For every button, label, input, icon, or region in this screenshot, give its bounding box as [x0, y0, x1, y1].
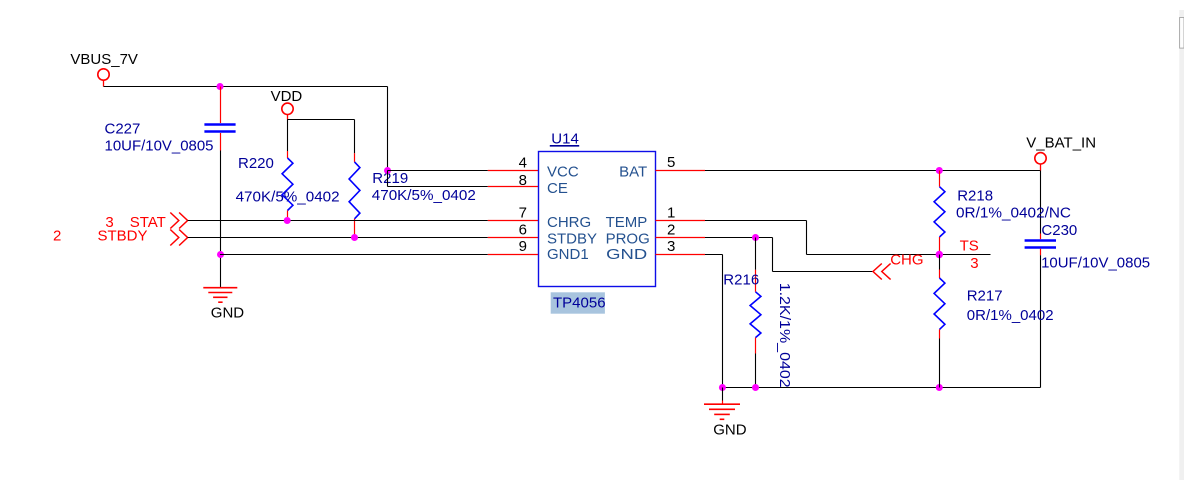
svg-text:7: 7: [519, 204, 527, 221]
svg-text:VCC: VCC: [547, 163, 579, 180]
scrollbar track: [1179, 10, 1184, 480]
wire VDD branch to R219: [288, 120, 355, 154]
resistor R216: [723, 238, 793, 388]
wire pin 3 GND to ground: [656, 254, 706, 256]
svg-text:CHG: CHG: [890, 251, 923, 268]
port VDD: [271, 88, 303, 120]
svg-text:CHRG: CHRG: [547, 214, 591, 231]
svg-text:470K/5%_0402: 470K/5%_0402: [236, 189, 340, 206]
off-page connector CHG: [873, 251, 924, 279]
junction R220/STAT: [284, 217, 291, 224]
svg-text:R216: R216: [723, 272, 759, 289]
capacitor C230: [1025, 222, 1151, 272]
wire pin 2 PROG: [656, 237, 706, 239]
svg-text:GND: GND: [713, 422, 747, 439]
svg-text:1.2K/1%_0402: 1.2K/1%_0402: [776, 283, 793, 388]
svg-text:C227: C227: [105, 121, 141, 138]
svg-text:BAT: BAT: [619, 163, 647, 180]
svg-text:R220: R220: [238, 155, 274, 172]
svg-text:V_BAT_IN: V_BAT_IN: [1026, 134, 1096, 151]
svg-text:3: 3: [667, 238, 675, 255]
resistor R220: [236, 151, 340, 221]
svg-text:470K/5%_0402: 470K/5%_0402: [372, 187, 476, 204]
ground GND (right): [704, 388, 747, 439]
IC U14 TP4056 body: [539, 131, 656, 287]
wire C230 to bottom net: [723, 255, 1041, 387]
junction VBUS/C227: [217, 83, 224, 90]
wire TS horizontal: [807, 254, 991, 256]
svg-text:TS: TS: [960, 237, 979, 254]
svg-text:PROG: PROG: [606, 230, 650, 247]
junction VCC node: [384, 167, 391, 174]
wire pin 5 BAT to V_BAT_IN: [656, 170, 706, 172]
wire to pin 4 VCC: [388, 170, 488, 172]
wire STBDY to pin 6 STDBY: [188, 237, 488, 239]
wire STAT to pin 7 CHRG: [188, 220, 488, 222]
svg-text:STDBY: STDBY: [547, 230, 597, 247]
svg-text:1: 1: [667, 204, 675, 221]
resistor R218: [934, 171, 1071, 255]
svg-text:6: 6: [519, 221, 527, 238]
off-page connector STAT: [105, 213, 187, 231]
junction R217 bottom: [936, 384, 943, 391]
wire VBUS down to VCC node: [387, 87, 389, 171]
svg-text:5: 5: [667, 154, 675, 171]
wire pin 1 TEMP to TS net: [656, 220, 706, 222]
port VBUS_7V: [70, 51, 138, 87]
svg-text:0R/1%_0402: 0R/1%_0402: [967, 307, 1054, 324]
capacitor C227: [105, 87, 236, 155]
svg-text:GND1: GND1: [547, 246, 589, 263]
wire V_BAT_IN down to C230: [1040, 171, 1042, 234]
junction PROG/R216: [752, 234, 759, 241]
svg-text:VBUS_7V: VBUS_7V: [70, 51, 138, 68]
port V_BAT_IN: [1026, 134, 1096, 170]
label TP4056: [551, 292, 606, 313]
svg-text:3: 3: [970, 255, 978, 272]
junction BAT/R218: [936, 167, 943, 174]
scrollbar thumb: [1180, 18, 1184, 49]
svg-text:10UF/10V_0805: 10UF/10V_0805: [105, 137, 214, 154]
junction TS/R218/R217: [936, 251, 943, 258]
junction GND1 net: [217, 251, 224, 258]
svg-text:STBDY: STBDY: [98, 228, 148, 245]
svg-text:GND: GND: [211, 304, 245, 321]
resistor R219: [349, 153, 476, 237]
svg-text:8: 8: [519, 172, 527, 189]
svg-text:9: 9: [519, 238, 527, 255]
wire VDD to R220: [287, 120, 289, 152]
svg-text:GND: GND: [606, 246, 647, 263]
wire ground net to pin 9 GND1: [220, 254, 488, 256]
wire C227 bottom to ground: [220, 151, 222, 288]
junction ground net: [719, 384, 726, 391]
svg-text:R218: R218: [957, 188, 993, 205]
svg-text:2: 2: [667, 221, 675, 238]
junction R219/STBDY: [351, 234, 358, 241]
junction R216 bottom: [752, 384, 759, 391]
ground GND (left): [203, 288, 244, 322]
svg-text:R219: R219: [372, 170, 408, 187]
svg-text:0R/1%_0402/NC: 0R/1%_0402/NC: [956, 204, 1071, 221]
off-page connector STBDY: [53, 228, 188, 246]
svg-text:CE: CE: [547, 180, 568, 197]
svg-text:R217: R217: [967, 288, 1003, 305]
wire to pin 8 CE: [388, 171, 488, 187]
svg-text:TP4056: TP4056: [553, 295, 606, 312]
svg-text:TEMP: TEMP: [606, 214, 648, 231]
svg-text:10UF/10V_0805: 10UF/10V_0805: [1041, 255, 1150, 272]
svg-text:C230: C230: [1041, 222, 1077, 239]
svg-text:4: 4: [519, 155, 527, 172]
resistor R217: [934, 255, 1053, 388]
svg-text:2: 2: [53, 228, 61, 245]
wire VBUS_7V horizontal: [104, 86, 388, 88]
